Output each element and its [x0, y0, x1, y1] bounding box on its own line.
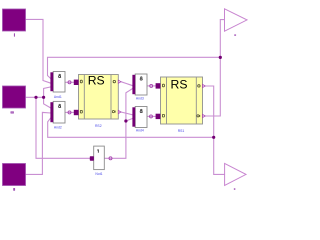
wire: Not1 riser branch to And4.in2	[126, 118, 133, 121]
glyph: ampersand of And2	[59, 104, 61, 106]
source j	[3, 9, 26, 37]
and gate And1	[50, 72, 71, 99]
wire: RS1.QN up to output qn buffer	[205, 20, 224, 116]
pin label: RS2 R	[80, 110, 82, 113]
junction dot: Not1 riser to And4 tee	[124, 119, 127, 122]
glyph: ampersand of And3	[141, 77, 143, 79]
svg-text:And2: And2	[54, 125, 62, 129]
wire: And3 output to RS1.S	[147, 85, 157, 87]
svg-text:RS: RS	[88, 73, 105, 87]
wire: clk branch down to Not1 input	[36, 97, 90, 158]
wire: j source to And1.in1	[26, 19, 51, 83]
pin: Not1 output ring	[109, 157, 112, 160]
svg-text:And1: And1	[54, 95, 62, 99]
glyph: 1 of Not1	[97, 149, 100, 152]
glyph: ampersand of And4	[141, 109, 143, 111]
wire: RS1.Q to output q buffer and feedback	[205, 86, 224, 174]
output buffer qn (top right triangle)	[225, 9, 248, 36]
pin bar: And1 inputs	[50, 72, 53, 91]
output buffer q (bottom right triangle)	[225, 163, 246, 190]
label: q	[234, 188, 236, 190]
wire: RS2.QN to And4.in1	[121, 112, 133, 115]
wire: clk up-branch to And1.in3	[44, 87, 51, 97]
pin: RS1.S input square	[156, 83, 161, 88]
label: j	[14, 33, 15, 36]
pin bar: And2 inputs	[50, 102, 53, 122]
wire: And4 output to RS1.R	[147, 115, 157, 117]
glyph: ampersand of And1	[59, 74, 61, 76]
pin: And4 output ring	[150, 115, 153, 118]
pin: RS1.R input square	[156, 114, 161, 119]
not gate Not1	[90, 146, 112, 176]
pin: And3 output ring	[150, 84, 153, 87]
junction dot: clk to And1/And2 tee	[42, 96, 45, 99]
RS flip-flop RS2	[74, 73, 121, 127]
pin label: RS1 R	[162, 114, 164, 117]
and gate And4	[132, 107, 152, 133]
pin label: RS1 QN	[197, 115, 199, 117]
pin label: RS1 S	[162, 84, 164, 87]
pin label: RS2 QN	[112, 111, 114, 113]
pin: And2 output ring	[68, 111, 71, 114]
pin: RS2.QN output triangle	[118, 110, 121, 113]
svg-text:And3: And3	[136, 96, 144, 100]
wire: And2 output to RS2.R	[65, 111, 75, 113]
junction dot: clk to Not1 tee	[34, 96, 37, 99]
pin: RS1.Q output triangle	[203, 84, 206, 87]
pin label: RS1 Q	[198, 85, 200, 87]
pin: And1 output ring	[68, 81, 71, 84]
pin bar: And3 inputs	[132, 75, 135, 94]
and gate And2	[50, 101, 71, 129]
label: qn	[234, 34, 236, 36]
wire: clk source to junctions	[26, 96, 44, 98]
wire: And1 output to RS2.S	[65, 81, 75, 83]
wire: Not1 output riser	[105, 88, 133, 158]
junction dot: RS1.QN feedback tee	[219, 56, 222, 59]
RS flip-flop RS1	[156, 77, 206, 133]
pin: RS2.R input square	[74, 110, 79, 115]
svg-text:RS1: RS1	[178, 129, 185, 133]
and gate And3	[132, 74, 152, 100]
pin label: RS2 Q	[113, 80, 115, 82]
wire: clk down-branch to And2.in1	[44, 97, 51, 108]
wire: RS1.Q feedback to And2.in3	[48, 118, 214, 138]
svg-text:And4: And4	[136, 129, 144, 133]
pin bar: And4 inputs	[132, 107, 135, 126]
wire: RS1.QN feedback to And1.in2	[48, 57, 221, 78]
pin: RS2.S input square	[74, 80, 79, 85]
pin: RS1.QN output triangle	[203, 114, 206, 117]
label: clk	[10, 111, 14, 113]
wire: k source riser to And2.in2	[26, 112, 51, 174]
source clk	[3, 86, 26, 114]
svg-text:RS2: RS2	[95, 124, 102, 128]
source k	[3, 164, 26, 191]
pin: Not1 input square	[90, 156, 94, 161]
junction dot: RS1.Q feedback tee	[212, 136, 215, 139]
wire: RS2.Q to And3.in1	[121, 82, 133, 86]
svg-text:RS: RS	[171, 78, 188, 92]
pin label: RS2 S	[80, 80, 82, 83]
svg-text:Not1: Not1	[95, 172, 102, 176]
label: k	[13, 188, 15, 191]
pin: RS2.Q output triangle	[118, 80, 121, 83]
